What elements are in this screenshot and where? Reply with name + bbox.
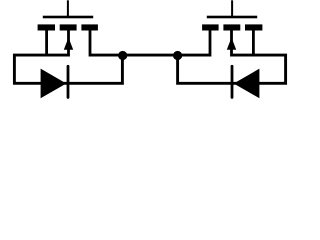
transistor Q1 source lead <box>45 30 48 56</box>
diode D1 anode triangle <box>42 70 65 96</box>
diode D2 cathode bar <box>231 66 234 97</box>
transistor Q2 gate lead <box>231 0 233 17</box>
transistor Q2 drain lead <box>209 30 212 56</box>
transistor Q2 body lead <box>230 30 233 56</box>
transistor Q1 channel body segment <box>60 24 77 30</box>
diode D1 cathode bar <box>67 66 70 97</box>
transistor Q2 channel source segment <box>245 24 262 30</box>
transistor Q2 channel drain segment <box>202 24 219 30</box>
transistor Q2 gate plate <box>207 16 257 19</box>
wire right loop through D2 <box>178 55 286 83</box>
wire middle drain-drain net <box>90 54 210 57</box>
diode D2 anode triangle <box>236 70 259 96</box>
transistor Q2 source lead <box>252 30 255 56</box>
transistor Q1 gate plate <box>43 16 93 19</box>
transistor Q1 gate lead <box>67 0 69 17</box>
transistor Q1 body lead <box>67 30 70 56</box>
transistor Q2 channel body segment <box>223 24 240 30</box>
transistor Q1 channel source segment <box>38 24 55 30</box>
node A junction dot <box>118 51 127 60</box>
transistor Q2 body arrow <box>227 38 236 50</box>
transistor Q1 body arrow <box>64 38 73 50</box>
transistor Q1 drain lead <box>89 30 92 56</box>
node B junction dot <box>173 51 182 60</box>
wire Q1 source-body tie and left loop through D1 <box>14 55 122 83</box>
transistor Q1 channel drain segment <box>81 24 98 30</box>
